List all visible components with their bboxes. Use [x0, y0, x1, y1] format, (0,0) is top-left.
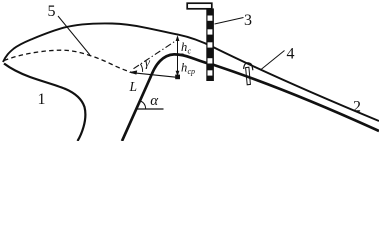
leader line to label 5: [58, 16, 90, 55]
alpha angle arc: [141, 101, 146, 109]
svg-text:h: h: [181, 40, 187, 54]
gamma angle arc: [140, 64, 142, 72]
rod white window 5: [208, 70, 213, 75]
svg-text:γ: γ: [145, 55, 151, 70]
svg-text:c: c: [188, 47, 192, 56]
rod white window 2: [208, 29, 213, 34]
svg-text:α: α: [150, 93, 159, 109]
dashed trajectory curve 5: [4, 50, 132, 72]
lower thick soil line (blade straight segment up, over crest, down right): [122, 54, 379, 141]
vertical dimension line h: [177, 37, 179, 76]
small filled square at base of dimension: [175, 75, 180, 80]
measuring rod 3: top horizontal bar: [187, 3, 212, 9]
peg marker 4: body: [246, 67, 251, 85]
alpha horizontal line: [137, 108, 164, 110]
svg-text:4: 4: [287, 46, 295, 63]
rod white window 4: [208, 58, 213, 63]
svg-text:3: 3: [244, 12, 252, 29]
svg-text:1: 1: [38, 91, 46, 108]
dimension arrow down: [176, 71, 180, 77]
dash-dot reference line (gamma upper leg): [134, 42, 175, 69]
horizontal reference line from vertex to square: [131, 73, 177, 78]
dimension tick at crest level: [174, 53, 184, 55]
leader line to label 3: [215, 18, 244, 25]
leader line to label 4: [261, 51, 285, 70]
rod white window 3: [208, 42, 213, 47]
arrowhead at vertex pointing left: [129, 70, 137, 74]
svg-text:h: h: [181, 61, 187, 75]
dimension arrow up: [176, 35, 180, 41]
svg-text:L: L: [129, 79, 138, 94]
svg-text:2: 2: [353, 99, 361, 116]
svg-text:ср: ср: [188, 67, 196, 76]
peg marker 4: curved head: [244, 63, 253, 71]
measuring rod 3: vertical staff: [206, 8, 214, 81]
top profile curve (surface line from tip over apex to right edge): [3, 23, 379, 121]
inner curved boundary of shape 1: [4, 64, 85, 142]
rod white window 1: [208, 16, 213, 21]
svg-text:5: 5: [48, 3, 56, 20]
